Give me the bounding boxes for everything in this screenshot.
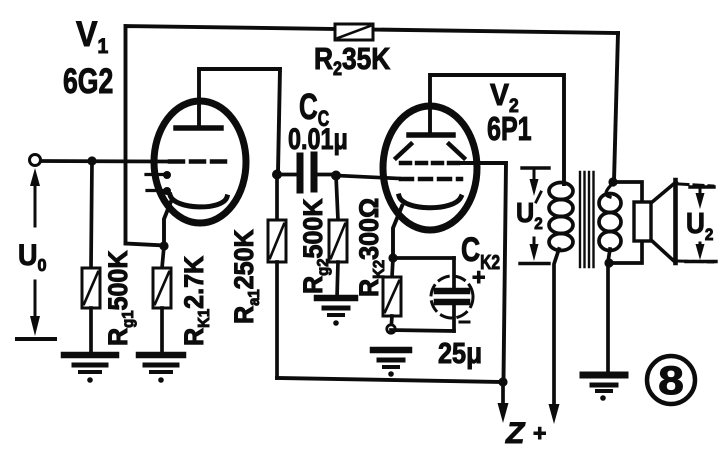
resistor Rg2 500K xyxy=(297,176,347,299)
transformer primary winding xyxy=(549,183,573,251)
ground (RK1) xyxy=(139,355,183,383)
V1 diode plate stub 2 xyxy=(147,187,171,195)
pentode V2 envelope xyxy=(383,106,477,230)
svg-text:8: 8 xyxy=(658,359,684,404)
dashed link speaker bottom xyxy=(678,261,713,262)
wire: feedback top rail xyxy=(126,26,619,243)
node: RK2 bottom junction xyxy=(387,325,395,333)
wire: primary bottom to B+ arrow xyxy=(554,249,559,410)
svg-text:U2: U2 xyxy=(686,207,713,244)
svg-text:RK12.7K: RK12.7K xyxy=(178,256,213,346)
ground (RK2) xyxy=(373,350,409,377)
triode-diode V1 envelope xyxy=(154,101,246,223)
capacitor Cc 0.01u xyxy=(277,87,348,190)
V2 beam plate right xyxy=(449,144,464,158)
input terminal xyxy=(30,155,41,166)
ground (secondary) xyxy=(583,375,625,401)
svg-text:V1: V1 xyxy=(76,16,108,58)
wire: B+ bottom rail xyxy=(277,378,503,382)
wire: V2 cathode to junction xyxy=(393,206,402,258)
V1 diode plate stub 1 xyxy=(146,171,171,179)
dashed link speaker top xyxy=(679,184,713,186)
figure number 8 (circled) xyxy=(647,356,695,404)
wire: Cc node to V2 grid xyxy=(336,176,399,179)
node: V1 cathode junction xyxy=(159,241,168,250)
resistor RK2 300ohm xyxy=(353,198,401,330)
ground (Rg2) xyxy=(317,298,355,326)
resistor Ra1 250K xyxy=(228,175,286,379)
svg-text:6G2: 6G2 xyxy=(63,61,113,100)
resistor R2 35K xyxy=(314,24,391,79)
V2 beam plate left xyxy=(396,144,411,158)
wire: top rail down to secondary xyxy=(614,33,618,181)
resistor RK1 2.7K xyxy=(153,246,213,352)
wire: V1 cathode to junction xyxy=(164,199,172,246)
wire: feedback to cathode junction xyxy=(126,244,165,246)
node: input/Rg1 junction xyxy=(87,156,96,165)
svg-text:Rg1500K: Rg1500K xyxy=(102,250,137,346)
B+ arrow (rail) xyxy=(498,382,509,423)
node: Cc right junction xyxy=(331,171,341,181)
svg-text:U2: U2 xyxy=(516,197,543,233)
svg-text:R235K: R235K xyxy=(314,42,391,79)
V2 control grid (dashed) xyxy=(401,177,461,182)
loudspeaker xyxy=(634,180,676,263)
svg-text:0.01μ: 0.01μ xyxy=(288,122,348,155)
svg-text:Z: Z xyxy=(505,417,526,450)
node: rail/screen junction xyxy=(498,377,507,386)
capacitor CK2 25u xyxy=(391,231,500,370)
label V1 6G2 xyxy=(63,16,113,101)
transformer secondary winding xyxy=(599,183,621,251)
voltage arrow U2 xyxy=(686,187,716,262)
node: V2 cathode junction xyxy=(388,253,397,262)
node: secondary bottom junction xyxy=(604,258,613,267)
V2 cathode xyxy=(399,196,461,208)
wire: secondary bottom to ground xyxy=(608,249,610,372)
node: Cc left junction xyxy=(272,170,282,180)
transformer core xyxy=(580,172,594,267)
svg-text:6P1: 6P1 xyxy=(487,111,532,148)
wire: V1 anode to Cc node xyxy=(199,69,280,172)
svg-text:CK2: CK2 xyxy=(461,231,500,274)
resistor Rg1 500K xyxy=(82,161,137,352)
V2 screen grid (dashed) xyxy=(401,161,462,166)
ground (Rg1) xyxy=(64,355,116,383)
svg-text:U0: U0 xyxy=(18,239,46,275)
V2 anode xyxy=(409,132,453,138)
voltage arrow U2' xyxy=(516,168,549,264)
V1 cathode xyxy=(170,195,227,207)
node: secondary top junction xyxy=(608,177,617,186)
V1 grid (dashed) xyxy=(170,159,229,164)
wire: input to grid V1 xyxy=(41,159,168,163)
wire: screen to B+ rail xyxy=(460,163,506,380)
svg-text:Ra1250K: Ra1250K xyxy=(228,229,263,324)
svg-text:25μ: 25μ xyxy=(438,336,482,369)
svg-text:+: + xyxy=(533,420,546,446)
wire: V2 anode to transformer primary xyxy=(430,75,564,184)
label Z+ xyxy=(505,417,546,450)
svg-text:Rg2500K: Rg2500K xyxy=(297,198,332,294)
label V2 6P1 xyxy=(487,78,532,148)
svg-text:RK2300Ω: RK2300Ω xyxy=(353,198,388,297)
wire: secondary bottom to speaker xyxy=(608,240,642,263)
V1 anode xyxy=(176,125,221,131)
wire: secondary top to speaker xyxy=(613,182,642,202)
voltage arrow U0 xyxy=(17,168,55,339)
